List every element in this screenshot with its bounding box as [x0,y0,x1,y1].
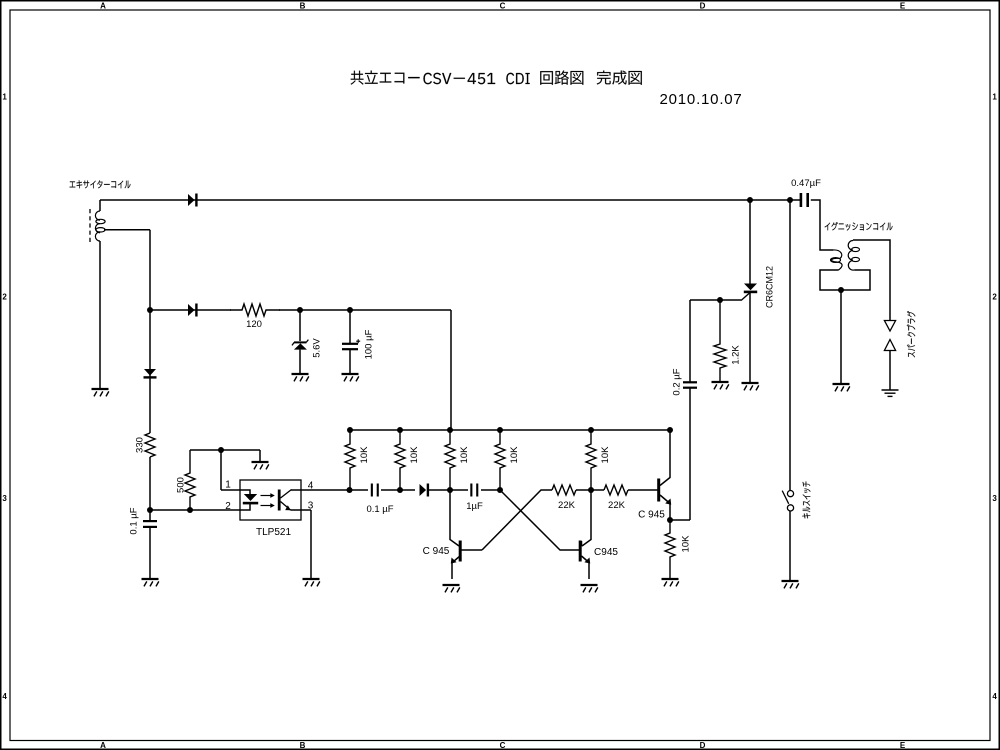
node dot x190 y510 [187,507,193,513]
wire kill switch drop [789,200,791,490]
node dot y450 [218,447,224,453]
svg-text:CR6CM12: CR6CM12 [765,266,775,308]
wire pin1 drop [220,450,222,490]
wire pin1 horizontal [221,489,240,491]
wire gate line y300 [690,299,741,301]
ground kill switch [782,581,799,588]
wire pin4 inside [291,489,301,491]
wire signal y490 a [350,489,368,491]
wire zener bottom lead [299,350,301,374]
ground thyristor [742,383,759,390]
wire x150 to cap [149,510,151,521]
wire cap100 top lead [349,310,351,344]
svg-text:C 945: C 945 [423,546,450,557]
wire exciter top lead [99,200,101,211]
TLP521 phototransistor bar [278,490,281,511]
svg-text:2010.10.07: 2010.10.07 [660,91,743,108]
wire pin3 down [310,510,312,579]
TLP521 LED bottom lead [240,504,250,510]
svg-text:C: C [500,2,506,11]
capacitor C3 0.1uF coupling [371,484,373,497]
wire Q1 base lead [462,549,483,551]
earth ground spark plug [882,390,899,396]
wire x150 lower segment [149,457,151,510]
ground pin3 [303,579,320,586]
svg-text:A: A [100,741,106,750]
svg-text:22K: 22K [558,500,576,511]
svg-text:0.2 µF: 0.2 µF [672,368,683,395]
wire secondary top [853,240,890,321]
wire x150 cap to ground [149,527,151,579]
svg-text:10K: 10K [681,535,692,553]
node dot thyristor tap [747,197,753,203]
resistor R6 10K emitter [665,520,675,579]
svg-text:0.1 µF: 0.1 µF [129,507,140,534]
node dot signal x400 [397,487,403,493]
wire signal y490 d [481,489,500,491]
transistor Q2 emitter [582,556,590,579]
wire y450 drop to ground [259,450,261,462]
node dot bus x400 [397,427,403,433]
svg-text:10K: 10K [409,446,420,464]
TLP521 LED input lead [240,490,250,494]
ground Q2 [581,585,598,592]
wire pin4 to node [301,489,350,491]
ignition coil bottom bracket [820,270,870,290]
svg-text:B: B [300,2,306,11]
resistor 10K #5 [586,430,596,490]
TLP521 light arrow upper [261,495,272,497]
node dot signal x500 [497,487,503,493]
wire signal y490 c [428,489,468,491]
svg-text:10K: 10K [459,446,470,464]
transistor Q3 C945 bar [657,479,660,502]
title text 共立エコー [351,71,420,85]
svg-text:1: 1 [992,93,997,102]
wire coil ground drop [840,290,842,384]
resistor 10K #3 [445,430,455,490]
resistor R1 120 zigzag [230,304,280,316]
wire y450 over 500 [190,449,260,451]
svg-text:D: D [700,2,706,11]
svg-text:A: A [100,2,106,11]
label キルスイッチ rotated [802,482,810,519]
wire bus y430 [350,429,670,431]
node dot emitter Q3 [667,517,673,523]
TLP521 collector diagonal [281,490,292,499]
op-amp U1 TLP521 box [240,480,301,520]
resistor 10K #4 [495,430,505,490]
resistor R2 330 zigzag [145,433,155,457]
wire pin2 line y510 [150,509,240,511]
svg-text:3: 3 [2,494,7,503]
capacitor C5 0.2uF [683,381,697,383]
transistor Q1 collector [450,490,459,546]
svg-text:2: 2 [225,501,231,512]
ground ignition coil [833,384,850,391]
TLP521 LED triangle [244,494,257,501]
svg-text:10K: 10K [509,446,520,464]
ground Q3 emitter resistor [662,579,679,586]
wire mid rail y310 right [279,309,451,311]
svg-text:C: C [500,741,506,750]
wire thyristor cathode [749,293,751,383]
wire exciter tap to junction [104,229,150,231]
thyristor SCR CR6CM12 [744,284,757,291]
transistor Q1 C945 bar [459,541,462,562]
wire diagonal B to 22K [482,490,552,550]
wire signal y490 b [381,489,415,491]
node dot x150 y510 [147,507,153,513]
title text 完成図 [597,71,642,85]
ground 0.1uF left [142,579,159,586]
transistor Q3 collector [660,430,670,486]
wire top rail y200 [100,199,800,201]
svg-text:C945: C945 [594,547,618,558]
svg-text:1µF: 1µF [466,501,483,512]
wire x150 upper segment [149,310,151,433]
wire pin3 horizontal [291,509,312,511]
TLP521 light arrow lower [261,505,272,507]
spark plug gap lower triangle [884,340,895,351]
node dot bus x350 [347,427,353,433]
svg-text:120: 120 [246,319,262,330]
svg-text:TLP521: TLP521 [256,527,291,538]
resistor R5 22K [604,485,628,495]
zener diode D5 5.6V [294,343,307,349]
ignition coil T2 primary winding [832,250,842,270]
diode D2 mid rail [188,304,195,316]
capacitor C2 0.1uF left [143,520,157,522]
svg-text:E: E [900,2,906,11]
label エキサイターコイル [70,180,131,188]
svg-text:4: 4 [2,692,7,701]
node dot kill switch tap [787,197,793,203]
transistor Q3 emitter [660,495,670,520]
wire x690 vertical lower [689,388,691,520]
node dot bus x500 [497,427,503,433]
transistor Q1 emitter [452,556,460,579]
node dot bus x591 [588,427,594,433]
node dot x591 y490 [588,487,594,493]
ground Q1 [443,585,460,592]
exciter coil T1 winding [95,211,100,220]
wire 22K2 to Q3 base [628,489,658,491]
resistor R3 500 [185,450,195,510]
svg-text:0.1 µF: 0.1 µF [366,504,393,515]
svg-text:E: E [900,741,906,750]
svg-text:10K: 10K [359,446,370,464]
svg-text:B: B [300,741,306,750]
ground zener [292,374,309,381]
wire emitter node to x690 [670,519,690,521]
ignition coil T2 secondary winding [848,241,853,251]
wire cap100 bottom lead [349,349,351,374]
node dot bus x670 [667,427,673,433]
TLP521 LED cathode bar [243,502,258,505]
svg-text:10K: 10K [600,446,611,464]
title text 回路図 [540,71,583,85]
wire diagonal A to Q2 base [500,490,579,550]
wire x690 vertical upper [689,300,691,382]
title text CDI [506,73,529,84]
capacitor C1 100uF [342,343,358,345]
wire zener top lead [299,310,301,341]
wire spark plug down [889,351,891,391]
ground 100uF [342,374,359,381]
capacitor C6 0.47uF [800,193,803,207]
svg-text:500: 500 [176,477,187,493]
node dot gate 1.2K [717,297,723,303]
svg-text:5.6V: 5.6V [312,338,323,358]
svg-text:1.2K: 1.2K [731,345,742,365]
node dot bus x450 [447,427,453,433]
diode D1 top rail [188,194,195,206]
exciter coil core dashed line [89,209,91,243]
resistor R7 1.2K [714,300,726,382]
svg-text:100 µF: 100 µF [364,329,375,359]
label イグニッションコイル [825,222,893,231]
title text CSV-451 [423,73,495,84]
svg-text:2: 2 [992,293,997,302]
TLP521 emitter diagonal [281,502,291,511]
wire exciter bottom vertical [99,241,101,389]
diode D4 signal [420,484,427,496]
node dot cap100 top [347,307,353,313]
svg-text:1: 1 [2,93,7,102]
wire node down x150 upper [149,230,151,311]
ground 1.2K [712,382,729,389]
node dot coil ground [838,287,844,293]
svg-text:22K: 22K [608,500,626,511]
wire mid rail y310 left [150,309,231,311]
svg-text:C 945: C 945 [638,510,665,521]
svg-text:330: 330 [135,437,146,453]
wire 22K to node [576,489,604,491]
transistor Q2 C945 bar [579,541,582,562]
node dot signal x450 [447,487,453,493]
svg-text:2: 2 [2,293,7,302]
svg-text:0.47µF: 0.47µF [791,178,821,189]
wire mid rail corner down [450,310,452,430]
label スパークプラグ rotated [907,311,915,357]
kill switch SW1 [787,491,793,497]
diode D3 vertical [144,369,156,376]
wire thyristor anode [749,200,751,284]
capacitor C4 1uF [470,484,472,497]
ground aux near TLP [252,462,269,469]
node dot pin4 [347,487,353,493]
node dot zener top [297,307,303,313]
svg-text:1: 1 [225,480,231,491]
svg-text:3: 3 [992,494,997,503]
svg-text:D: D [700,741,706,750]
resistor R4 22K [552,485,576,495]
wire kill switch to ground [789,511,791,581]
svg-text:4: 4 [992,692,997,701]
wire cap to coil corner [811,200,833,250]
resistor 10K #1 [345,430,355,490]
resistor 10K #2 [395,430,405,490]
transistor Q2 collector [582,490,592,546]
spark plug gap upper triangle [884,321,895,332]
ground exciter coil [92,389,109,396]
node dot mid rail x150 [147,307,153,313]
